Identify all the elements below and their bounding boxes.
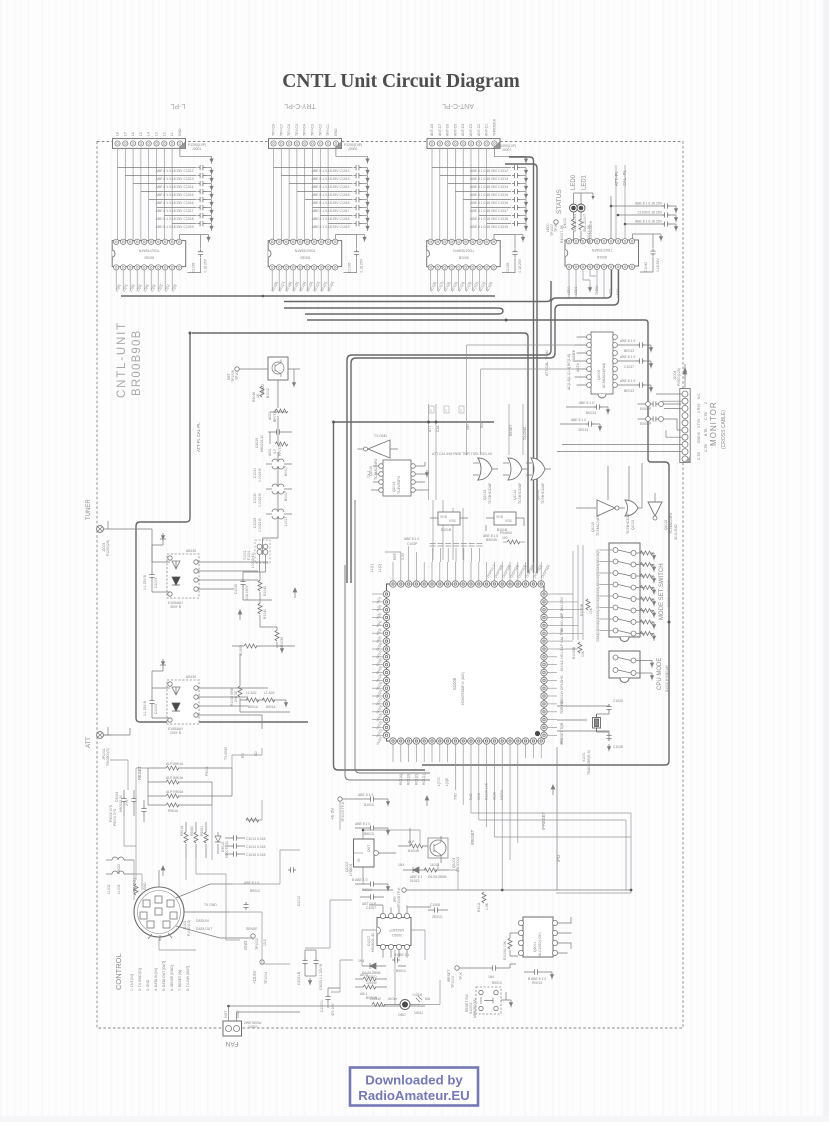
gate wiring (576, 463, 655, 508)
svg-text:TP1004: TP1004 (264, 972, 268, 984)
resistor R4002 (572, 219, 576, 230)
svg-text:ABE 8 1 0: ABE 8 1 0 (244, 881, 259, 885)
svg-text:L1 A02: L1 A02 (264, 691, 275, 695)
svg-text:ANT-C-PL: ANT-C-PL (442, 102, 474, 109)
transistor Q1004 (398, 828, 460, 872)
svg-text:C1030: C1030 (253, 493, 257, 503)
svg-text:/PRESET: /PRESET (541, 812, 546, 830)
svg-text:dBP: dBP (560, 612, 564, 619)
svg-text:GND: GND (143, 882, 147, 890)
caps and resistors under T1001 (230, 555, 295, 712)
svg-text:C9022: C9022 (117, 864, 121, 874)
wire bus G1 outputs (121, 295, 495, 297)
svg-text:B1013: B1013 (364, 803, 374, 807)
svg-text:C.TB: C.TB (704, 412, 708, 420)
IC wiring (369, 905, 431, 958)
svg-text:TP-K: TP-K (235, 372, 239, 380)
svg-text:C1039 0.18 25V: C1039 0.18 25V (637, 211, 662, 215)
svg-text:R0013: R0013 (532, 981, 542, 985)
side cap C1042 of Q2021 (633, 234, 654, 272)
svg-text:M5218FP: M5218FP (389, 928, 404, 932)
svg-text:TRY-C6: TRY-C6 (287, 124, 291, 136)
LED D2 (577, 204, 585, 212)
svg-text:Q1013: Q1013 (483, 490, 487, 500)
vertical net wires with labels ATT CAL INH RD RESET TX-GND (429, 404, 524, 560)
resistor rows near power LED (355, 973, 387, 1000)
svg-text:MODE SET SWITCH: MODE SET SWITCH (659, 563, 665, 620)
svg-text:B101B: B101B (497, 528, 508, 532)
svg-text:TRY-C-PL: TRY-C-PL (284, 102, 316, 109)
LED status section (546, 174, 595, 243)
input resistor R10060 (508, 938, 512, 949)
svg-text:6001#: 6001# (266, 705, 276, 709)
svg-text:N.C: N.C (697, 393, 701, 399)
svg-text:S1002 HY08014Y: S1002 HY08014Y (665, 664, 669, 692)
svg-text:DDI8[6]: DDI8[6] (596, 561, 600, 573)
photocoupler PC1 (top, AB130) (143, 533, 268, 609)
svg-text:THROUGH: THROUGH (492, 118, 496, 136)
svg-text:C1003: C1003 (154, 704, 158, 714)
svg-text:REF: REF (393, 553, 397, 560)
monitor connector J2004 (557, 364, 727, 463)
svg-text:DDI8[0]: DDI8[0] (596, 630, 600, 642)
svg-text:B9013: B9013 (396, 969, 406, 973)
svg-text:TP1008 TP-K: TP1008 TP-K (397, 887, 401, 908)
buffer triangle Q1015b (648, 502, 662, 516)
wires down to Q2021 (616, 165, 625, 239)
svg-text:01013: 01013 (410, 879, 420, 883)
svg-text:Q9001: Q9001 (533, 942, 537, 952)
svg-text:ABE 8 1 0.18 25V: ABE 8 1 0.18 25V (635, 220, 663, 224)
svg-text:DDI8[4]: DDI8[4] (596, 584, 600, 596)
svg-text:ACT#: ACT# (576, 363, 580, 372)
svg-text:TP-K: TP-K (554, 224, 558, 232)
svg-text:L1: L1 (170, 132, 174, 136)
svg-text:HB0800L-40: HB0800L-40 (371, 933, 375, 952)
svg-text:DATA OUT: DATA OUT (196, 927, 212, 931)
svg-text:S1003 HY08014Y: S1003 HY08014Y (667, 579, 671, 607)
svg-text:R9080: R9080 (190, 826, 194, 836)
svg-text:OUT: OUT (367, 845, 371, 852)
svg-text:L1003: L1003 (117, 884, 121, 894)
svg-text:ABE 8 1 0: ABE 8 1 0 (579, 401, 594, 405)
VR R1038 (238, 686, 242, 697)
cap C1006 right (432, 907, 440, 912)
svg-text:BE013: BE013 (624, 349, 634, 353)
svg-text:R1039: R1039 (280, 637, 284, 647)
op-amp IC Q1010 M5218FP (367, 903, 448, 958)
svg-text:ALP B901#: ALP B901# (166, 762, 183, 766)
svg-text:R9019: R9019 (180, 826, 184, 836)
svg-text:P0900(12S): P0900(12S) (677, 368, 681, 386)
svg-text:1.5K: 1.5K (485, 902, 489, 910)
wire bus mid horizontal (192, 333, 528, 573)
svg-text:2E013: 2E013 (432, 915, 442, 919)
logic gates row under Q2006 (576, 463, 678, 540)
svg-text:1N4: 1N4 (488, 975, 494, 979)
svg-text:C1015 0.018: C1015 0.018 (246, 853, 266, 857)
svg-text:2E013: 2E013 (578, 428, 588, 432)
svg-text:TOR: TOR (560, 706, 564, 714)
extra component labels bottom-left (117, 766, 301, 946)
svg-text:PP071#: PP071# (278, 444, 282, 456)
svg-text:BE013: BE013 (586, 411, 596, 415)
svg-text:R4002 1.5K: R4002 1.5K (560, 224, 564, 243)
svg-text:/RESET: /RESET (470, 829, 475, 845)
caps below Q2006 (560, 401, 610, 432)
svg-text:L-PL: L-PL (171, 102, 186, 109)
svg-text:RESET: RESET (509, 425, 513, 436)
svg-text:HB0070-30: HB0070-30 (225, 841, 229, 858)
svg-text:C9029: C9029 (255, 438, 259, 448)
svg-text:AG/1: AG/1 (268, 448, 272, 456)
svg-text:3.3V: 3.3V (401, 552, 405, 560)
svg-text:J2007: J2007 (502, 148, 511, 152)
svg-text:P9003 2YS: P9003 2YS (113, 808, 117, 826)
connector J2001 L-PL with capacitor array and driver IC Q1001 (112, 139, 213, 291)
svg-text:41097#: 41097# (239, 645, 243, 656)
svg-text:1N4: 1N4 (398, 863, 404, 867)
svg-text:SENSE: SENSE (246, 927, 258, 931)
svg-text:GND: GND (243, 941, 248, 950)
RESET SW S10001 (465, 987, 513, 1018)
cap row B0013 (352, 878, 390, 892)
svg-text:3: GND: 3: GND (146, 979, 150, 991)
svg-text:B5013: B5013 (364, 832, 374, 836)
svg-text:ATT.-PL: ATT.-PL (614, 171, 619, 186)
svg-text:RadioAmateur.EU: RadioAmateur.EU (358, 1088, 469, 1103)
svg-text:R1040: R1040 (263, 609, 267, 619)
svg-text:RD: RD (480, 423, 484, 428)
svg-text:ABE 8 1 0: ABE 8 1 0 (571, 418, 586, 422)
svg-text:BE013: BE013 (624, 389, 634, 393)
svg-text:T903800(S): T903800(S) (106, 748, 110, 766)
svg-text:TX GND: TX GND (204, 903, 217, 907)
svg-text:B ABE C1: B ABE C1 (394, 953, 409, 957)
svg-text:J2001: J2001 (192, 147, 201, 151)
svg-text:2YS: 2YS (125, 799, 129, 806)
photocoupler Q9001 (503, 917, 572, 985)
svg-text:HOT: HOT (224, 1011, 228, 1018)
wire bus to right loop (307, 320, 669, 765)
capacitor C1026 (606, 704, 611, 712)
svg-text:R1042: R1042 (263, 586, 267, 596)
capacitor C1028 (606, 733, 611, 741)
svg-text:C9051 B: C9051 B (297, 971, 301, 985)
left cap cluster C9024 (109, 790, 147, 826)
svg-text:DDI8[7]: DDI8[7] (596, 549, 600, 561)
IC Q2001 output net labels (271, 281, 335, 292)
svg-text:L[0]S: L[0]S (445, 777, 449, 786)
svg-text:MPB0B0(3A): MPB0B0(3A) (473, 998, 477, 1018)
wire bus G3 U-turn (284, 308, 503, 314)
svg-text:CNTL Unit Circuit Diagram: CNTL Unit Circuit Diagram (282, 71, 519, 92)
svg-text:TP1005 TP-K: TP1005 TP-K (341, 801, 345, 822)
crystal X1001 (557, 699, 623, 775)
wires to right (198, 562, 268, 589)
svg-text:B0017: B0017 (284, 491, 288, 501)
crystal wiring (557, 704, 609, 741)
svg-text:TXD: TXD (453, 793, 457, 800)
svg-text:ANT-C3: ANT-C3 (469, 124, 473, 136)
svg-text:TP1003: TP1003 (451, 976, 455, 988)
resistor AG/1 4.7 (268, 442, 288, 456)
svg-text:ABE 8 1 0: ABE 8 1 0 (358, 793, 373, 797)
svg-text:CAL: CAL (560, 636, 564, 643)
svg-text:INH: INH (466, 424, 470, 430)
svg-text:L[T00: L[T00 (437, 777, 441, 786)
svg-text:SCI1-RXD: SCI1-RXD (674, 524, 678, 540)
caps below (524, 971, 552, 973)
svg-text:C1031: C1031 (253, 468, 257, 478)
svg-text:Downloaded by: Downloaded by (365, 1073, 463, 1088)
svg-text:ANT-C4: ANT-C4 (461, 124, 465, 136)
resistor row 41097 (232, 645, 282, 647)
svg-text:AC[1-8],L1[1-8] RC[1-8]: AC[1-8],L1[1-8] RC[1-8] (567, 354, 571, 390)
transformer T1001 (243, 535, 278, 568)
badge box: Downloaded by RadioAmateur.EU (350, 1068, 478, 1106)
bottom-center power rail wires (331, 801, 458, 1004)
svg-text:ABE 8 1 0: ABE 8 1 0 (404, 537, 419, 541)
IC Q2021 bottom labels LED0 LED1 THRU ATT CAL (567, 285, 620, 295)
pin 1 dot (535, 731, 540, 736)
microcontroller IC S1005 HD6473388F10 (387, 584, 545, 741)
inductor B0017 (253, 459, 292, 482)
svg-text:2001W: 2001W (366, 981, 378, 985)
svg-text:MOEK: MOEK (572, 349, 576, 360)
svg-text:C9052 0.1 25V B: C9052 0.1 25V B (319, 963, 323, 990)
svg-text:GND B: GND B (697, 432, 701, 443)
svg-text:TC74AC04FU: TC74AC04FU (596, 514, 600, 536)
wire from ATT connector (103, 728, 130, 735)
label RC1[4..] under MCU left (437, 777, 449, 786)
svg-text:AG21: AG21 (268, 411, 272, 420)
svg-text:C102P: C102P (407, 542, 418, 546)
extra caps bottom-left (243, 902, 248, 910)
svg-text:/PD: /PD (560, 738, 564, 744)
svg-text:AB B: AB B (360, 973, 368, 977)
svg-text:2 RX9: 2 RX9 (697, 403, 701, 413)
svg-text:TQR: TQR (560, 722, 564, 730)
svg-text:C1029: C1029 (253, 518, 257, 528)
svg-text:X1001: X1001 (582, 752, 586, 762)
mode switch right pulldown resistors (636, 551, 656, 641)
svg-text:CONTROL: CONTROL (114, 953, 123, 990)
svg-text:1001J: 1001J (414, 1011, 424, 1015)
net name labels (428, 350, 549, 440)
svg-text:P1290(2S): P1290(2S) (106, 540, 110, 556)
svg-text:ATT CAL INH RWD TWR TSEL TXG-: ATT CAL INH RWD TWR TSEL TXG-K0 (432, 452, 492, 456)
svg-text:R10060 10K: R10060 10K (503, 940, 507, 960)
inductor B0018 (253, 484, 292, 507)
svg-text:1N4: 1N4 (358, 959, 364, 963)
svg-text:STATUS: STATUS (556, 189, 563, 214)
inverter Q1014a (597, 500, 615, 516)
svg-text:6: SENSE [GND]: 6: SENSE [GND] (170, 965, 174, 991)
svg-text:ATT. CAL. THRU: ATT. CAL. THRU (545, 350, 549, 376)
svg-text:Q1013: Q1013 (536, 490, 540, 500)
svg-text:VDD: VDD (440, 515, 448, 519)
svg-text:T1001: T1001 (243, 550, 247, 560)
wire bus left loop (136, 334, 308, 722)
mode switch left wires and labels (573, 545, 613, 640)
svg-text:3 TX9: 3 TX9 (697, 419, 701, 428)
svg-text:E001-P: E001-P (640, 407, 652, 411)
svg-text:ATT: ATT (86, 737, 92, 748)
svg-text:ALP B901#: ALP B901# (166, 776, 183, 780)
svg-text:C1007: C1007 (366, 906, 376, 910)
svg-text:ALP R901#: ALP R901# (166, 790, 183, 794)
DIN connector J1002 CONTROL (134, 870, 252, 941)
cap pairs left of connector (646, 402, 664, 422)
svg-text:DPL: DPL (560, 683, 564, 690)
svg-text:0.1 25V B: 0.1 25V B (143, 574, 147, 590)
svg-text:TC74HC32AF: TC74HC32AF (541, 483, 545, 504)
svg-text:1: 13.5 [IN]: 1: 13.5 [IN] (130, 974, 134, 991)
MCU serial wire bundle down (455, 758, 631, 893)
svg-text:C1013 0.018: C1013 0.018 (246, 837, 266, 841)
svg-text:CNTL-UNIT: CNTL-UNIT (116, 321, 128, 398)
pin name labels L8..L1 GND (116, 128, 182, 136)
test point LED0 TP1007 (554, 220, 558, 224)
svg-text:ABE 8 1 0.18 25V: ABE 8 1 0.18 25V (635, 202, 663, 206)
IC Q2021 bottom pin stubs (569, 269, 618, 298)
svg-text:ANT-C6: ANT-C6 (446, 124, 450, 136)
wire bus pair from J2007 (509, 157, 534, 573)
svg-text:CAL.-PL: CAL.-PL (622, 170, 627, 186)
svg-text:AB130: AB130 (186, 549, 196, 553)
wires from connector left (557, 394, 682, 452)
inductors L1002 L1003 (106, 857, 137, 894)
IC Q2011 output net labels (429, 281, 493, 292)
LED D1 (570, 204, 578, 212)
svg-text:TRY-C3: TRY-C3 (311, 124, 315, 136)
pin name labels ANT-C8..C1 THROUGH (430, 118, 496, 136)
svg-text:B0013: B0013 (362, 888, 372, 892)
svg-text:HD6473388F10 (A20): HD6473388F10 (A20) (461, 672, 465, 705)
svg-text:S1005: S1005 (452, 677, 457, 690)
svg-text:BP071#: BP071# (273, 410, 277, 422)
svg-text:L5: L5 (139, 132, 143, 136)
svg-text:10K: 10K (589, 607, 593, 614)
svg-text:J2002: J2002 (348, 147, 357, 151)
svg-text:TRY-C8: TRY-C8 (272, 124, 276, 136)
svg-text:CPU MODE: CPU MODE (657, 658, 663, 690)
inductor L0017 (253, 509, 292, 532)
svg-text:P9001: P9001 (205, 766, 209, 776)
svg-text:R1034B: R1034B (572, 646, 576, 659)
svg-text:5: DATA OUT [OUT]: 5: DATA OUT [OUT] (162, 961, 166, 991)
svg-text:ANT-C8: ANT-C8 (430, 124, 434, 136)
svg-text:0RG: 0RG (560, 597, 564, 604)
svg-text:+13.5V: +13.5V (252, 970, 257, 984)
svg-text:0.0019 B: 0.0019 B (258, 468, 262, 482)
svg-text:470 16V: 470 16V (331, 1003, 335, 1016)
test point +5.0V TP1005 + cap (330, 793, 390, 822)
inverter Q1015 (358, 434, 399, 480)
cap bank above MCU top pins (385, 544, 483, 563)
svg-text:ATT-PL CAL-PL: ATT-PL CAL-PL (196, 422, 201, 452)
svg-text:2SLXXXX: 2SLXXXX (456, 856, 460, 872)
svg-text:0.0022 B: 0.0022 B (258, 493, 262, 507)
driver IC Q2021 (LED driver, right) (565, 239, 639, 270)
svg-text:C10001: C10001 (320, 1000, 324, 1012)
svg-text:B101W: B101W (408, 849, 420, 853)
svg-text:L1[1]: L1[1] (370, 564, 374, 572)
svg-text:Q1013: Q1013 (631, 520, 635, 530)
resistor pair L1 A02 (240, 699, 286, 701)
svg-text:Q1015: Q1015 (664, 520, 668, 530)
svg-text:C1014 0.018: C1014 0.018 (246, 845, 266, 849)
svg-text:1: 1 (460, 409, 462, 413)
FAN connector J1003 (223, 1006, 425, 1047)
svg-text:TRG: TRG (560, 628, 564, 636)
bottom-left resistor grid R9012 x4 (137, 746, 258, 813)
svg-text:TRY-C1: TRY-C1 (326, 124, 330, 136)
svg-text:TC74AC04FU: TC74AC04FU (374, 458, 378, 480)
svg-text:/LLP: /LLP (560, 643, 564, 651)
svg-text:L7: L7 (123, 132, 127, 136)
svg-text:2001W: 2001W (370, 997, 382, 1001)
capacitor C9029 (255, 429, 292, 452)
svg-text:LED1: LED1 (582, 174, 588, 190)
svg-text:2: TX GND [IN]: 2: TX GND [IN] (138, 968, 142, 991)
svg-text:TRY-C5: TRY-C5 (295, 124, 299, 136)
test point /RESET TP1003 (447, 964, 516, 988)
photocoupler PC2 (bottom) (143, 659, 268, 735)
svg-text:B0017: B0017 (284, 466, 288, 476)
svg-text:B001#: B001# (248, 705, 258, 709)
svg-text:4.7: 4.7 (273, 449, 277, 454)
resistor R9046 1K (260, 386, 264, 397)
svg-text:L4: L4 (147, 132, 151, 136)
svg-text:ABE 8 1 0: ABE 8 1 0 (620, 379, 635, 383)
svg-text:ABE 8 1 0: ABE 8 1 0 (620, 355, 635, 359)
svg-text:TUNER: TUNER (86, 499, 92, 520)
svg-text:(CROSS CABLE): (CROSS CABLE) (721, 410, 727, 449)
svg-text:RC1[1]: RC1[1] (422, 774, 426, 785)
svg-text:TX-GND: TX-GND (374, 434, 388, 438)
svg-text:0.0022 B: 0.0022 B (258, 518, 262, 532)
svg-text:13.5: 13.5 (263, 939, 267, 946)
svg-text:0.18 25V: 0.18 25V (656, 258, 660, 272)
chain vertical wire (270, 380, 278, 535)
wire number tags (429, 406, 464, 413)
svg-text:DDI8[3]: DDI8[3] (596, 595, 600, 607)
OR gate Q1013d (625, 500, 638, 516)
test point GND TP1002 (243, 934, 259, 950)
svg-text:TRY-C7: TRY-C7 (279, 124, 283, 136)
svg-text:R1011: R1011 (477, 902, 481, 912)
svg-text:7MA000B9(G-S): 7MA000B9(G-S) (587, 750, 591, 775)
cap C10001 470 16V (320, 988, 340, 1016)
svg-text:CAL: CAL (436, 425, 440, 432)
svg-text:+5. 0V: +5. 0V (330, 808, 335, 820)
svg-text:L8: L8 (116, 132, 120, 136)
svg-text:TC74HC32AF: TC74HC32AF (626, 513, 630, 534)
svg-text:HD1: HD1 (560, 699, 564, 706)
OR gate Q1013b (503, 458, 528, 504)
power indicator LED D1001 (370, 993, 431, 1017)
svg-text:D6-B125BM: D6-B125BM (428, 875, 447, 879)
svg-text:L1[2]: L1[2] (378, 564, 382, 572)
wire bus mid-left thick (334, 421, 495, 423)
cap C1007 (360, 894, 384, 910)
svg-text:1: 1 (430, 409, 432, 413)
svg-text:Q2006: Q2006 (597, 370, 601, 380)
svg-text:RC1[4]: RC1[4] (399, 774, 403, 785)
svg-text:DDI8[5]: DDI8[5] (596, 572, 600, 584)
